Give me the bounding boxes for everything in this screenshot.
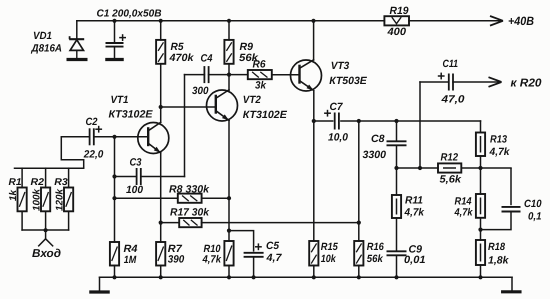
resistor R11 — [392, 195, 401, 218]
node input junction — [44, 228, 48, 232]
wire VT2 collector up — [228, 75, 230, 91]
wire R5 bottom to VT1 collector — [160, 64, 162, 123]
svg-text:C11: C11 — [443, 58, 459, 70]
wire R14 bottom lead — [480, 218, 482, 240]
capacitor C2 electrolytic — [89, 128, 91, 145]
resistor R3 — [64, 188, 73, 212]
wire R12 right lead — [461, 167, 511, 169]
wire C4 to C3 horizontal — [142, 176, 185, 178]
wire ground rail — [100, 276, 513, 278]
wire VD1 cathode lead — [76, 21, 78, 39]
wire C8 to R11 — [396, 145, 398, 195]
node junction R12 left at C11 — [418, 166, 422, 170]
capacitor C9 — [387, 250, 407, 252]
wire +40V top rail left segment — [77, 20, 385, 22]
capacitor C4 — [203, 66, 205, 83]
svg-text:КТ3102Е: КТ3102Е — [243, 109, 288, 121]
svg-text:R17 30k: R17 30k — [170, 207, 210, 219]
svg-text:VD1: VD1 — [33, 30, 52, 42]
svg-text:4,7k: 4,7k — [404, 207, 426, 219]
node junction VT3 emitter at C7 — [312, 119, 316, 123]
node junction base column at C3 — [112, 174, 116, 178]
wire input junction bar — [22, 229, 69, 231]
wire C11 vertical — [419, 82, 421, 168]
resistor R7 — [156, 242, 165, 266]
wire C1 top lead — [114, 21, 116, 42]
svg-text:C7: C7 — [330, 101, 344, 113]
resistor R2 — [41, 188, 50, 212]
wire VT3 emitter down — [313, 91, 315, 241]
node rail junction R7 — [159, 275, 163, 279]
arrow +40V output — [490, 16, 503, 21]
resistor R13 — [476, 133, 485, 157]
wire C11 right lead — [453, 81, 500, 83]
wire R16 top column — [358, 121, 360, 241]
wire C2 jog down — [61, 137, 83, 168]
svg-text:C10: C10 — [524, 198, 542, 210]
wire R17 left lead — [161, 222, 180, 224]
node rail junction R4 — [112, 275, 116, 279]
resistor R9 — [224, 40, 233, 64]
node junction top rail at C1 — [112, 19, 116, 23]
svg-text:4,7k: 4,7k — [202, 254, 222, 266]
wire C4 right lead — [209, 74, 248, 76]
node rail junction C9 — [394, 275, 398, 279]
wire ground right drop — [511, 277, 513, 290]
wire R10 bottom lead — [228, 266, 230, 278]
svg-text:3300: 3300 — [363, 149, 387, 161]
wire C10 bottom branch — [481, 211, 512, 229]
node input terminal chevron — [38, 239, 45, 247]
node junction top rail at R5 — [159, 19, 163, 23]
wire VT2 emitter down to R10 — [228, 120, 230, 241]
resistor R15 — [309, 241, 318, 266]
wire R1 top lead — [21, 168, 23, 187]
svg-text:R15: R15 — [321, 241, 338, 253]
svg-text:R13: R13 — [490, 133, 507, 145]
wire R12 left lead — [397, 167, 439, 169]
svg-text:R11: R11 — [405, 194, 423, 206]
svg-text:10,0: 10,0 — [328, 132, 348, 144]
svg-text:C4: C4 — [201, 53, 213, 65]
svg-text:1k: 1k — [8, 189, 19, 201]
node rail junction R15 — [312, 275, 316, 279]
wire C4 left lead — [185, 74, 205, 76]
wire R1 bottom lead — [21, 211, 23, 230]
wire C7 left lead — [314, 120, 333, 122]
svg-text:R16: R16 — [367, 241, 384, 253]
svg-text:56k: 56k — [367, 253, 384, 265]
svg-text:4,7k: 4,7k — [454, 207, 474, 219]
wire R8 left lead — [115, 197, 178, 199]
svg-text:120k: 120k — [55, 188, 66, 211]
wire R15 bottom lead — [313, 266, 315, 278]
wire C4 left vertical down — [184, 75, 186, 177]
svg-text:300: 300 — [192, 85, 209, 97]
capacitor C8 — [387, 140, 407, 142]
node junction VT2 emitter at C5 branch — [227, 229, 231, 233]
wire C11 left lead — [420, 81, 448, 83]
svg-text:5,6k: 5,6k — [440, 173, 463, 185]
svg-text:C5: C5 — [266, 240, 279, 252]
node junction base column at R8 — [112, 196, 116, 200]
node junction R13 bottom — [478, 166, 482, 170]
wire R13 bottom lead — [480, 156, 482, 194]
transistor VT2 — [207, 90, 238, 121]
svg-text:C1 200,0x50В: C1 200,0x50В — [97, 9, 162, 20]
svg-text:4,7k: 4,7k — [489, 146, 511, 158]
wire C10 top branch — [510, 168, 512, 205]
svg-text:VT1: VT1 — [111, 94, 129, 106]
resistor R18 — [476, 240, 485, 265]
capacitor C5 electrolytic — [244, 252, 264, 254]
resistor R8 — [178, 194, 202, 203]
wire R3 bottom lead — [68, 211, 70, 230]
arrow to R20 — [489, 77, 502, 82]
svg-text:100k: 100k — [32, 188, 43, 211]
svg-text:R2: R2 — [31, 177, 45, 188]
node junction R9/C4/R6/VT2 collector — [227, 73, 231, 77]
capacitor C11 electrolytic — [448, 74, 450, 91]
wire R9 bottom lead — [228, 64, 230, 75]
wire R18 bottom lead — [480, 265, 482, 277]
svg-text:0,01: 0,01 — [404, 254, 426, 266]
node junction VT1 collector — [159, 105, 163, 109]
wire C1 bottom lead — [114, 47, 116, 58]
capacitor C7 electrolytic — [334, 113, 336, 130]
node junction R14/R18/C10 — [478, 228, 482, 232]
node junction VT2 emitter at R8 — [227, 196, 231, 200]
resistor R10 — [224, 241, 233, 266]
svg-text:390: 390 — [168, 254, 185, 266]
svg-text:R18: R18 — [488, 241, 505, 253]
svg-text:Д816А: Д816А — [31, 43, 62, 55]
capacitor C1 electrolytic — [106, 42, 124, 44]
svg-text:100: 100 — [126, 184, 143, 196]
svg-text:R14: R14 — [455, 195, 472, 207]
transistor VT1 — [138, 123, 169, 154]
node rail junction R10 — [227, 275, 231, 279]
svg-text:КТ503Е: КТ503Е — [329, 75, 367, 87]
wire R2 top lead — [45, 168, 47, 187]
node rail junction R16 — [357, 275, 361, 279]
ground right — [501, 290, 522, 293]
resistor R5 — [156, 40, 165, 64]
wire R4 bottom lead — [114, 266, 116, 278]
svg-text:3k: 3k — [255, 80, 267, 92]
wire input stub — [45, 230, 47, 239]
wire ground left drop — [99, 277, 101, 291]
svg-text:C2: C2 — [86, 116, 98, 128]
resistor R19 — [384, 16, 409, 25]
svg-text:R6: R6 — [253, 58, 266, 70]
node junction output line at R16 — [357, 119, 361, 123]
wire R6 right to VT3 base — [272, 74, 299, 76]
wire C5 bottom lead — [253, 257, 255, 277]
wire R8 right lead — [202, 197, 229, 199]
resistor R12 — [438, 163, 461, 172]
wire R3 top lead — [68, 168, 70, 187]
svg-text:R19: R19 — [390, 5, 409, 17]
node junction VT1 emitter at R17 — [159, 221, 163, 225]
ground under VD1 — [67, 58, 88, 61]
wire R9 top lead — [228, 21, 230, 40]
node rail junction C5 — [252, 275, 256, 279]
capacitor C10 — [502, 206, 521, 208]
wire VT1 base column down — [114, 137, 116, 242]
wire input bus — [15, 167, 84, 169]
node junction output line at C8 — [394, 119, 398, 123]
resistor R14 — [476, 194, 485, 218]
resistor R16 — [354, 241, 363, 266]
svg-text:R12: R12 — [441, 151, 459, 163]
svg-text:4,7: 4,7 — [265, 252, 282, 264]
ground left — [89, 290, 110, 293]
wire R16 bottom lead — [358, 266, 360, 278]
svg-text:1M: 1M — [124, 254, 137, 266]
svg-text:C8: C8 — [371, 133, 385, 145]
node junction top rail at R9 — [227, 19, 231, 23]
wire C2 left lead — [61, 136, 89, 138]
node junction VT1 base — [112, 135, 116, 139]
wire VT1 collector to VT2 base — [161, 106, 216, 108]
diode VD1 zener — [69, 38, 84, 40]
capacitor C3 — [136, 168, 138, 185]
wire C2 to VT1 base — [94, 136, 148, 138]
resistor R6 — [248, 70, 272, 79]
svg-text:Вход: Вход — [32, 248, 61, 260]
svg-text:22,0: 22,0 — [83, 149, 104, 161]
node rail junction R18 — [478, 275, 482, 279]
wire R11 to C9 — [396, 218, 398, 250]
node junction R16 column at R17 — [357, 221, 361, 225]
node junction C8 column at R12 — [394, 166, 398, 170]
wire +40V top rail right segment — [409, 20, 502, 22]
wire R13 top lead — [480, 121, 482, 133]
wire R17 right lead — [202, 222, 359, 224]
node junction top rail at VT3 collector — [311, 19, 315, 23]
wire R5 top lead — [160, 21, 162, 40]
svg-text:к R20: к R20 — [511, 78, 543, 90]
svg-text:400: 400 — [386, 26, 406, 38]
wire VT3 collector up — [313, 21, 315, 60]
resistor R17 — [179, 218, 201, 227]
svg-text:C3: C3 — [130, 156, 142, 168]
wire C8 top lead — [396, 121, 398, 140]
svg-text:R1: R1 — [9, 177, 22, 188]
svg-text:КТ3102Е: КТ3102Е — [109, 109, 154, 121]
wire VT1 emitter down — [160, 153, 162, 242]
wire R7 bottom lead — [160, 266, 162, 278]
svg-text:+40В: +40В — [508, 14, 534, 28]
svg-text:R3: R3 — [54, 177, 68, 188]
transistor VT3 — [291, 60, 322, 91]
svg-text:47,0: 47,0 — [440, 93, 464, 105]
resistor R4 — [110, 242, 119, 266]
svg-text:VT2: VT2 — [243, 94, 261, 106]
wire C9 bottom lead — [396, 255, 398, 277]
svg-text:0,1: 0,1 — [528, 210, 542, 222]
resistor R1 — [18, 188, 27, 212]
svg-text:10k: 10k — [321, 253, 337, 265]
wire C7 right line to R13 — [341, 120, 481, 122]
svg-text:470k: 470k — [168, 52, 194, 64]
wire C3 left lead — [115, 176, 136, 178]
svg-text:1,8k: 1,8k — [488, 255, 510, 267]
wire C5 branch — [229, 231, 254, 252]
wire R2 bottom lead — [45, 211, 47, 230]
ground under C1 — [105, 58, 124, 61]
svg-text:VT3: VT3 — [331, 60, 350, 72]
svg-text:R8 330k: R8 330k — [169, 183, 210, 195]
